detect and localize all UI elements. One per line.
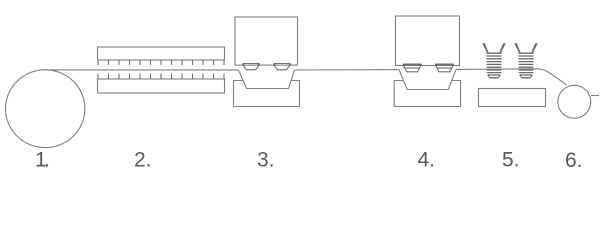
svg-text:2.: 2. xyxy=(134,149,152,172)
svg-text:6.: 6. xyxy=(565,149,583,172)
svg-text:4.: 4. xyxy=(418,149,436,172)
svg-text:3.: 3. xyxy=(257,149,275,172)
svg-text:5.: 5. xyxy=(502,149,520,172)
svg-text:1.: 1. xyxy=(35,149,50,172)
